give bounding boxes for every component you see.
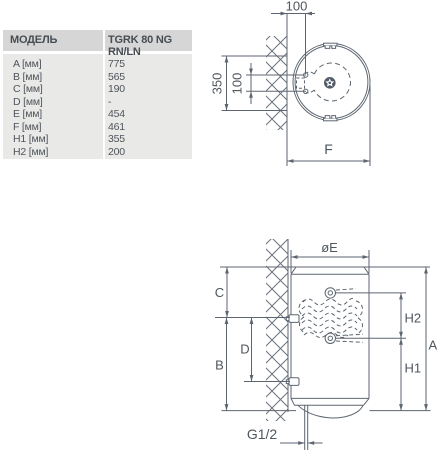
dimension oE line xyxy=(291,256,369,258)
svg-text:100: 100 xyxy=(286,0,308,14)
wall (hatched) side view xyxy=(266,239,288,421)
350 extension lines xyxy=(222,55,288,57)
tank top surface / extension line (C left, A right) xyxy=(220,266,430,268)
svg-text:100: 100 xyxy=(230,73,245,95)
dimension 100 (top) line xyxy=(271,13,315,15)
bottom tab xyxy=(324,116,338,121)
svg-text:F: F xyxy=(324,141,333,157)
wall (hatched) top view xyxy=(266,36,287,130)
lower bracket extension line xyxy=(244,381,290,383)
dimension 350 line xyxy=(226,56,228,111)
dashed inner tank circle xyxy=(314,63,350,101)
svg-text:B: B xyxy=(215,358,224,373)
D dimension line xyxy=(251,318,253,382)
svg-text:H2: H2 xyxy=(405,311,422,326)
G1/2 dimension lines xyxy=(280,442,323,444)
B dimension line xyxy=(226,318,228,411)
tank bottom dome xyxy=(298,405,363,418)
F extension line (right) xyxy=(369,85,371,166)
tank body left edge xyxy=(290,274,292,398)
coil bottom port xyxy=(325,333,335,343)
tank rim seam xyxy=(291,273,369,275)
lower wall bracket xyxy=(286,378,299,386)
oE extension lines xyxy=(290,250,292,273)
wall face line xyxy=(286,14,288,167)
keyhole dashed hooks xyxy=(306,72,314,74)
dimension 100 (top) arrows xyxy=(281,12,313,16)
svg-text:H1: H1 xyxy=(405,361,422,376)
screw top xyxy=(304,73,308,77)
center emblem (anode cap) xyxy=(325,78,334,87)
bottom extension line (A/B/H1 base) xyxy=(222,410,431,412)
dimension F line xyxy=(287,160,370,162)
coil top port xyxy=(325,288,335,298)
data table xyxy=(3,29,192,31)
100 (left) extension lines to screws xyxy=(246,74,306,76)
upper bracket extension line xyxy=(215,317,290,319)
keyhole dashed slot xyxy=(297,78,305,88)
outlet pipe xyxy=(305,406,308,450)
heater outer circle xyxy=(293,44,370,121)
dimension 100 (left) line xyxy=(250,63,252,104)
H2/H1 extension lines xyxy=(336,292,407,294)
heater inner circle xyxy=(295,46,368,119)
dashed pipe stubs bottom xyxy=(336,334,363,342)
screw bottom xyxy=(304,89,308,93)
svg-text:A: A xyxy=(429,338,438,353)
heat exchanger coil (dashed) xyxy=(299,298,363,337)
extension line to top screw xyxy=(305,14,307,75)
svg-text:G1/2: G1/2 xyxy=(247,426,278,442)
tank body right edge xyxy=(368,274,370,398)
svg-text:D: D xyxy=(240,342,249,357)
dimension H2 line xyxy=(400,293,402,338)
upper wall bracket xyxy=(286,315,299,323)
tank top chamfers xyxy=(291,267,369,274)
dimension A line xyxy=(425,267,427,411)
dimension H1 line xyxy=(400,338,402,410)
top tab xyxy=(324,43,338,48)
dashed pipe stubs top xyxy=(336,289,356,290)
tank bottom skirt xyxy=(291,398,369,405)
svg-text:øE: øE xyxy=(321,240,338,255)
C dimension line xyxy=(226,267,228,318)
svg-text:350: 350 xyxy=(210,73,225,95)
tank bottom rim xyxy=(291,397,369,399)
wall face line side xyxy=(287,239,289,412)
svg-text:C: C xyxy=(215,285,224,300)
